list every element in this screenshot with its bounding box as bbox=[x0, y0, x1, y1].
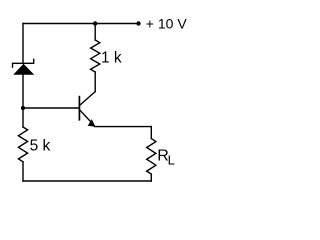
svg-text:1 k: 1 k bbox=[101, 50, 122, 67]
svg-text:+ 10 V: + 10 V bbox=[146, 16, 188, 32]
svg-text:L: L bbox=[168, 153, 175, 168]
svg-text:5 k: 5 k bbox=[30, 137, 51, 154]
